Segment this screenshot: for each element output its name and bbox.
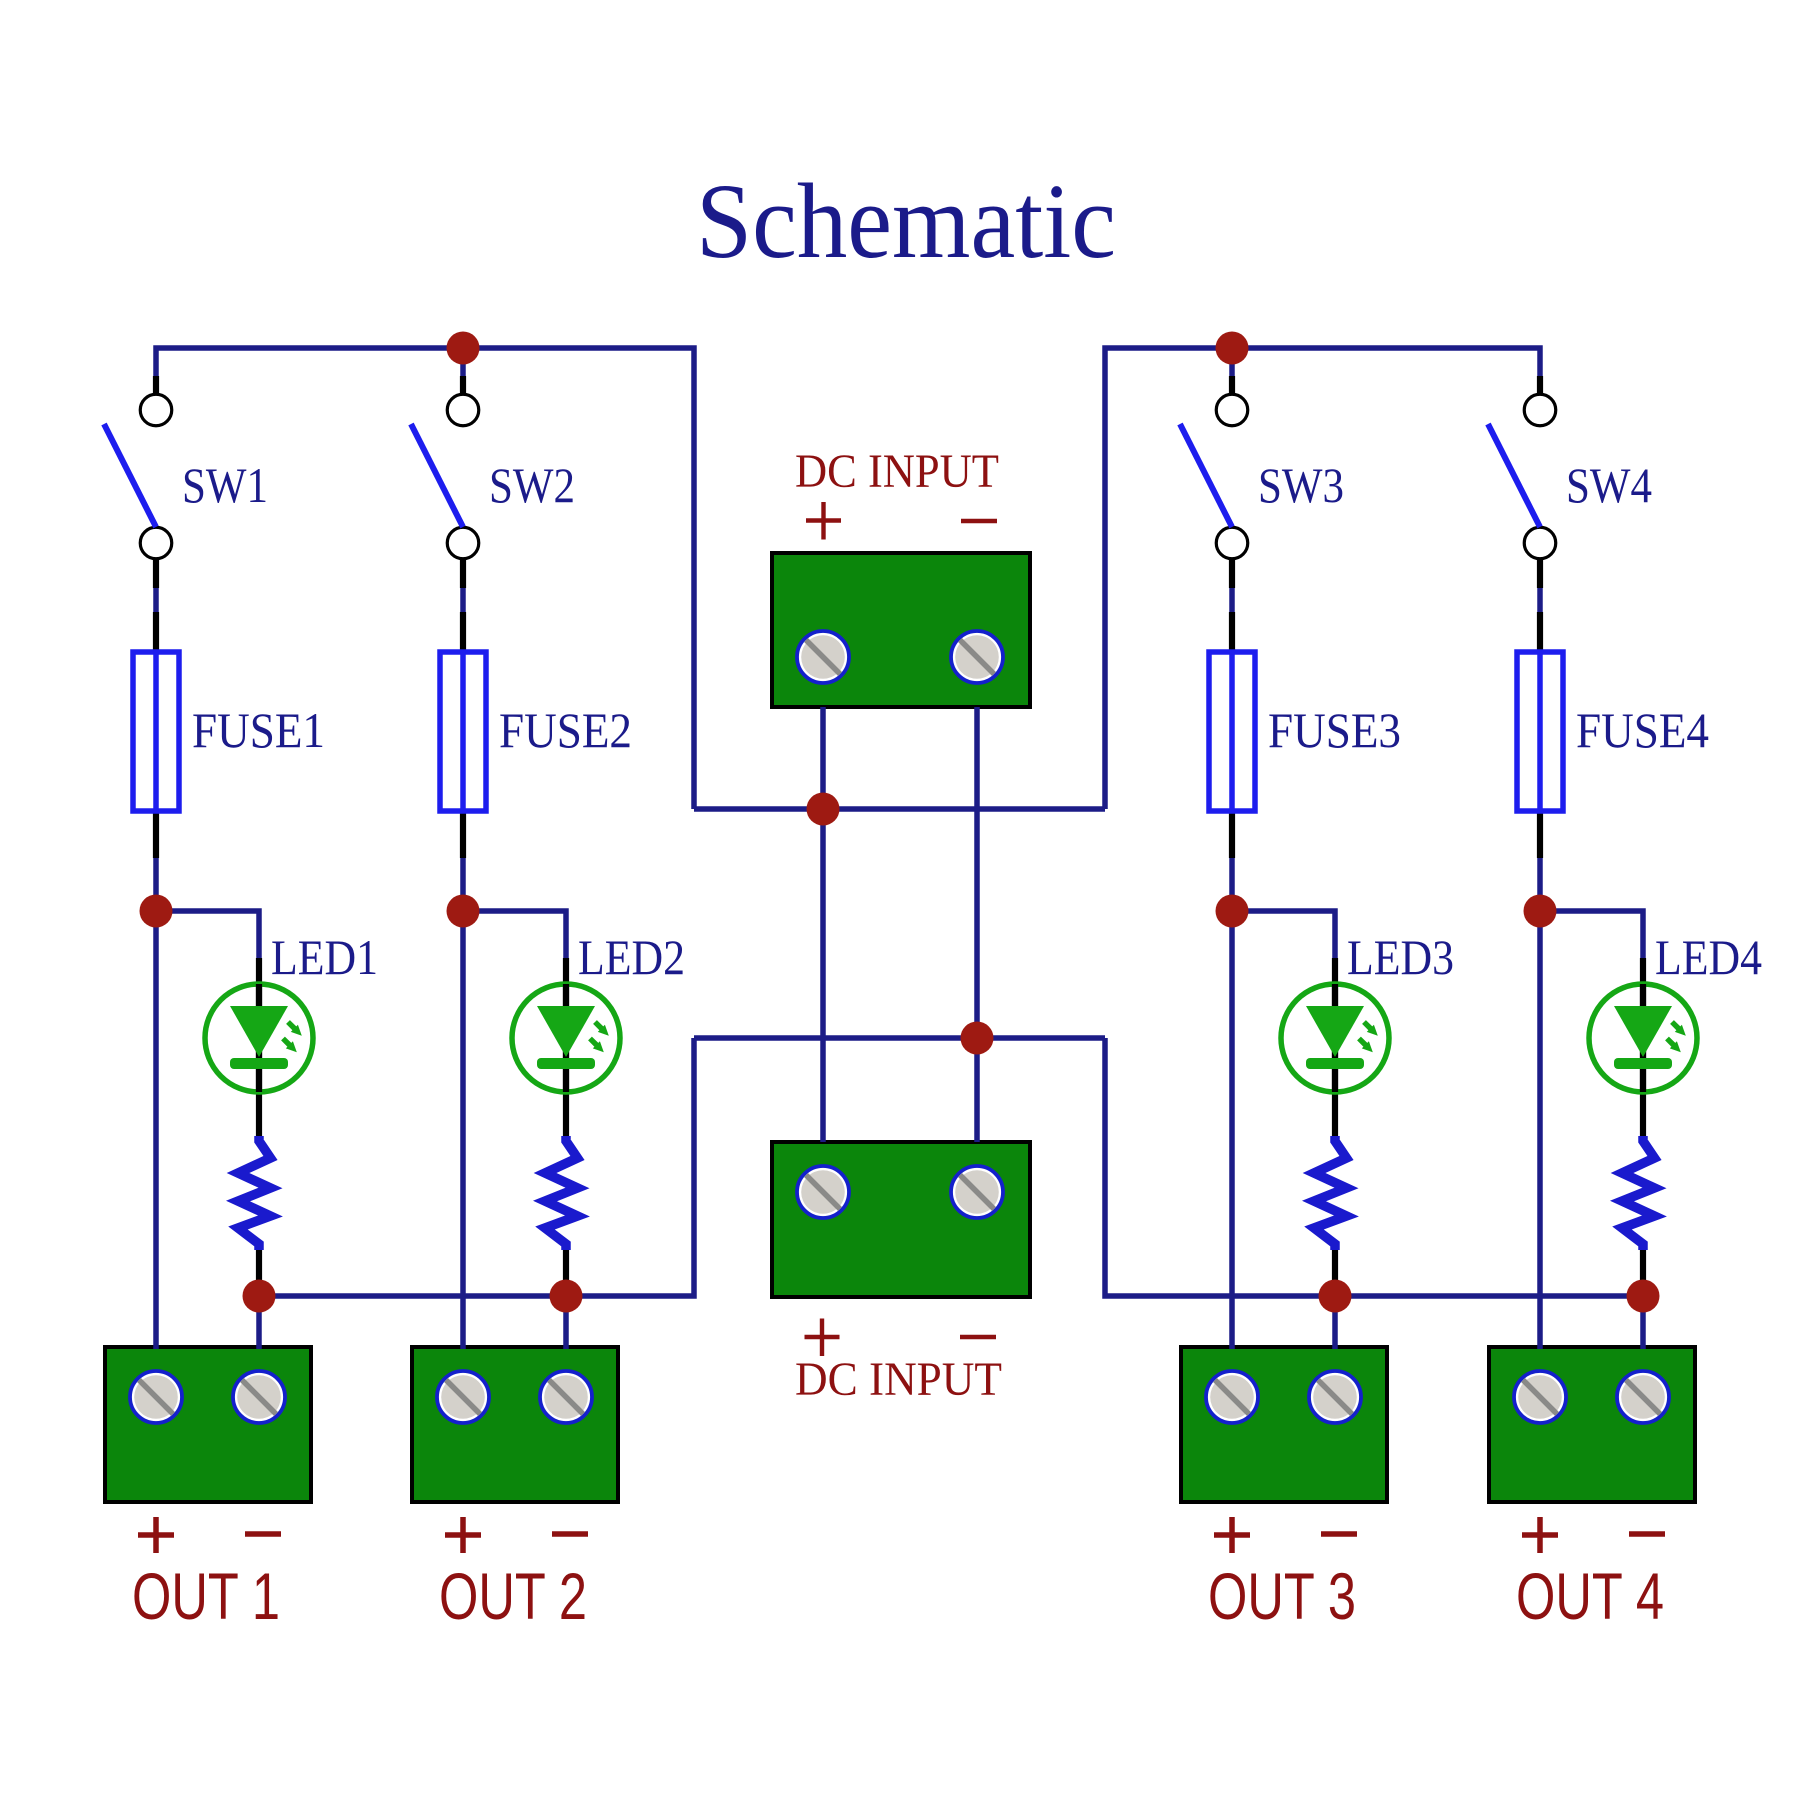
fuse FUSE2 xyxy=(440,652,486,811)
junction DC plus on positive bus xyxy=(807,793,840,826)
terminal block J1 OUT 1 xyxy=(105,1347,311,1502)
wire branch4 jog to LED4 xyxy=(1540,911,1643,962)
svg-text:DC INPUT: DC INPUT xyxy=(795,445,999,498)
terminal block J6 DC INPUT (bottom) xyxy=(772,1142,1030,1297)
wire branch3 jog to LED3 xyxy=(1232,911,1335,962)
junction top bus at SW3 xyxy=(1216,332,1249,365)
minus mark OUT 4 xyxy=(1629,1531,1665,1537)
terminal block J4 OUT 4 xyxy=(1489,1347,1695,1502)
svg-text:SW2: SW2 xyxy=(489,457,575,513)
switch SW4 xyxy=(1488,394,1556,559)
black pin stubs switches and fuses xyxy=(156,376,1540,858)
wire SW2 top stub xyxy=(460,348,466,400)
wire positive rail right: +bus up and top bus over SW3 to SW4 xyxy=(1105,348,1540,809)
terminal block J5 DC INPUT (top) xyxy=(772,553,1030,707)
terminal block J2 OUT 2 xyxy=(412,1347,618,1502)
wire DC input plus pin column xyxy=(820,707,826,1142)
wire branch1 fuse to OUT1 plus pin xyxy=(153,855,159,1349)
svg-text:FUSE3: FUSE3 xyxy=(1268,702,1401,758)
svg-text:FUSE1: FUSE1 xyxy=(192,702,325,758)
wire branch2 fuse to OUT2 plus pin xyxy=(460,855,466,1349)
junction OUT1 minus xyxy=(243,1280,276,1313)
LED LED4 xyxy=(1589,984,1697,1092)
junction top bus at SW2 xyxy=(447,332,480,365)
junction OUT2 minus xyxy=(550,1280,583,1313)
fuse FUSE1 xyxy=(133,652,179,811)
junction branch2 fuse/LED xyxy=(447,895,480,928)
wire negative rail left down to OUT1/OUT2 minus bus xyxy=(259,1038,694,1296)
switch SW2 xyxy=(411,394,479,559)
minus mark DC INPUT top xyxy=(961,519,997,523)
svg-text:OUT 4: OUT 4 xyxy=(1516,1559,1664,1633)
wire branch1 jog to LED1 xyxy=(156,911,259,962)
fuse FUSE4 xyxy=(1517,652,1563,811)
switch SW3 xyxy=(1180,394,1248,559)
wire switch to fuse stubs xyxy=(156,560,1540,652)
minus mark OUT 3 xyxy=(1321,1531,1357,1537)
plus mark OUT 3 xyxy=(1214,1517,1250,1553)
plus mark DC INPUT top xyxy=(806,502,841,540)
svg-text:SW3: SW3 xyxy=(1258,457,1344,513)
svg-text:LED3: LED3 xyxy=(1347,929,1454,985)
svg-text:OUT 1: OUT 1 xyxy=(132,1559,280,1633)
black pin stubs LEDs and resistors xyxy=(259,958,1643,1284)
wire branch2 jog to LED2 xyxy=(463,911,566,962)
junction OUT4 minus xyxy=(1627,1280,1660,1313)
LED LED2 xyxy=(512,984,620,1092)
svg-text:LED1: LED1 xyxy=(271,929,378,985)
LED LED3 xyxy=(1281,984,1389,1092)
wire negative bus center xyxy=(694,1035,1105,1041)
minus mark DC INPUT bottom xyxy=(960,1335,996,1339)
LED LED1 xyxy=(205,984,313,1092)
minus mark OUT 1 xyxy=(245,1531,281,1537)
wire branch2 resistor to OUT2 minus pin xyxy=(563,1296,569,1349)
wire branch1 resistor to OUT1 minus pin xyxy=(256,1296,262,1349)
svg-text:FUSE4: FUSE4 xyxy=(1576,702,1709,758)
wire positive rail left: top bus from SW1 over SW2 down to +bus xyxy=(156,348,694,809)
svg-text:LED4: LED4 xyxy=(1655,929,1762,985)
wire branch3 resistor to OUT3 minus pin xyxy=(1332,1296,1338,1349)
svg-text:SW1: SW1 xyxy=(182,457,268,513)
resistor R4 xyxy=(1622,1136,1655,1250)
wire DC input minus pin column xyxy=(974,707,980,1142)
plus mark DC INPUT bottom xyxy=(805,1319,840,1357)
terminal block J3 OUT 3 xyxy=(1181,1347,1387,1502)
wire branch3 fuse to OUT3 plus pin xyxy=(1229,855,1235,1349)
svg-text:OUT 2: OUT 2 xyxy=(439,1559,587,1633)
junction branch4 fuse/LED xyxy=(1524,895,1557,928)
svg-text:FUSE2: FUSE2 xyxy=(499,702,632,758)
junction branch1 fuse/LED xyxy=(140,895,173,928)
wire branch4 resistor to OUT4 minus pin xyxy=(1640,1296,1646,1349)
wire negative rail right down to OUT3/OUT4 minus bus xyxy=(1105,1038,1643,1296)
junction branch3 fuse/LED xyxy=(1216,895,1249,928)
svg-text:LED2: LED2 xyxy=(578,929,685,985)
plus mark OUT 4 xyxy=(1522,1517,1558,1553)
wire branch4 fuse to OUT4 plus pin xyxy=(1537,855,1543,1349)
wire SW3 top stub xyxy=(1229,348,1235,400)
resistor R3 xyxy=(1314,1136,1347,1250)
svg-text:Schematic: Schematic xyxy=(696,163,1116,281)
fuse FUSE3 xyxy=(1209,652,1255,811)
minus mark OUT 2 xyxy=(552,1531,588,1537)
resistor R2 xyxy=(545,1136,578,1250)
wire positive bus center xyxy=(694,806,1105,812)
svg-text:DC INPUT: DC INPUT xyxy=(795,1353,1002,1406)
plus mark OUT 1 xyxy=(138,1517,174,1553)
junction DC minus on negative bus xyxy=(961,1022,994,1055)
resistor R1 xyxy=(238,1136,271,1250)
svg-text:SW4: SW4 xyxy=(1566,457,1652,513)
switch SW1 xyxy=(104,394,172,559)
svg-text:OUT 3: OUT 3 xyxy=(1208,1559,1356,1633)
junction OUT3 minus xyxy=(1319,1280,1352,1313)
plus mark OUT 2 xyxy=(445,1517,481,1553)
